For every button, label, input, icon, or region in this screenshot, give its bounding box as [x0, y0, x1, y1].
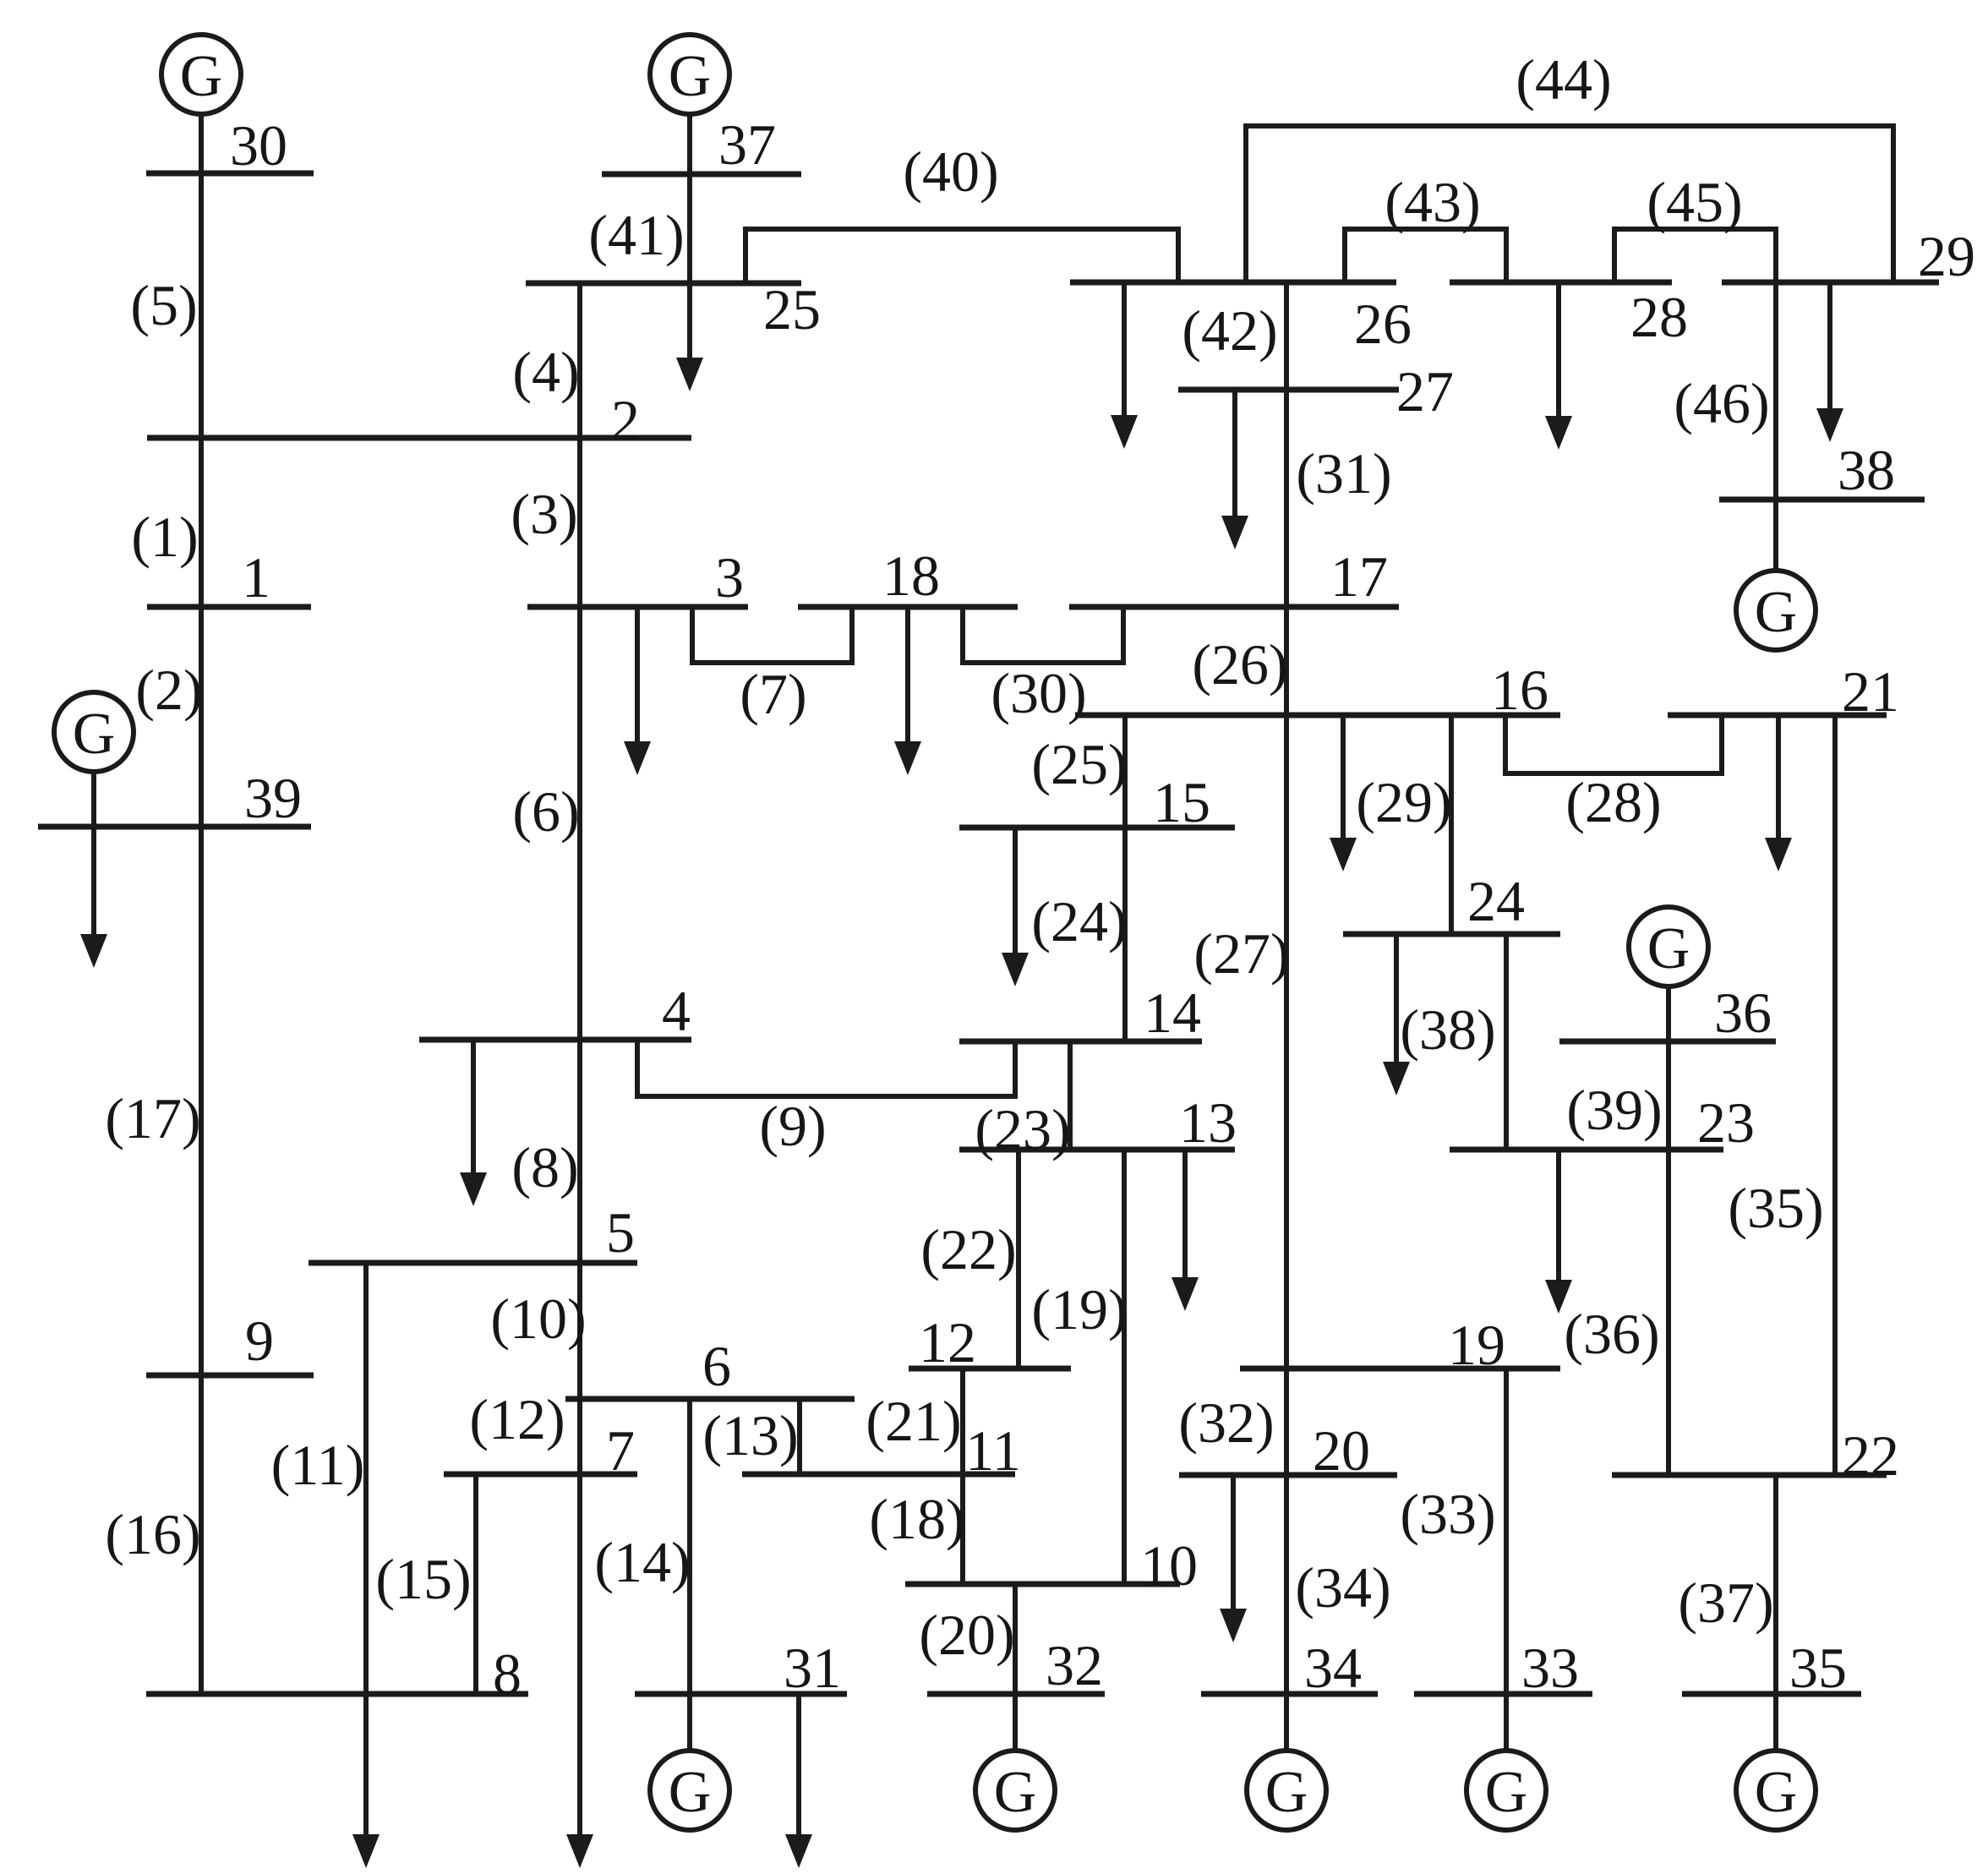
svg-text:G: G — [180, 44, 223, 109]
bus 21 bar — [1668, 713, 1887, 718]
svg-text:(28): (28) — [1565, 770, 1661, 834]
bus 26 bar — [1070, 280, 1396, 286]
svg-text:22: 22 — [1842, 1423, 1899, 1488]
bus 29 bar — [1722, 280, 1939, 286]
wire line (33) 19-33 — [1504, 1369, 1509, 1694]
wire line (13) 6-11 — [797, 1399, 802, 1474]
wire line (9) 4-14 — [637, 1040, 1015, 1096]
svg-text:34: 34 — [1304, 1636, 1362, 1700]
wire line (10) 5-6 — [577, 1263, 582, 1399]
svg-text:2: 2 — [611, 388, 640, 452]
wire line (6) 3-4 — [577, 607, 582, 1040]
wire line (26) 17-16 — [1284, 607, 1289, 715]
svg-text:(4): (4) — [512, 340, 579, 404]
bus 19 bar — [1240, 1366, 1560, 1372]
svg-text:(35): (35) — [1728, 1176, 1823, 1240]
svg-text:18: 18 — [882, 544, 940, 608]
bus 1 bar — [147, 604, 311, 610]
svg-text:29: 29 — [1918, 224, 1975, 288]
svg-text:(2): (2) — [135, 658, 202, 722]
bus 12 bar — [909, 1366, 1071, 1372]
svg-text:(3): (3) — [511, 482, 577, 546]
bus 33 bar — [1414, 1691, 1592, 1697]
generator G bus 35 — [1736, 1694, 1816, 1830]
load arrow bus 15 — [1002, 828, 1029, 986]
wire line (15) 7-8 — [473, 1474, 478, 1694]
wire line (17) 39-9 — [199, 827, 204, 1375]
wire line (21) 12-11 — [960, 1369, 965, 1474]
bus 10 bar — [905, 1582, 1180, 1587]
svg-text:(38): (38) — [1400, 997, 1495, 1062]
svg-text:(36): (36) — [1564, 1302, 1659, 1366]
generator G bus 34 — [1247, 1694, 1326, 1830]
svg-text:11: 11 — [965, 1418, 1020, 1483]
svg-text:(5): (5) — [130, 273, 197, 337]
load arrow bus 8 — [352, 1694, 380, 1868]
load arrow bus 24 — [1383, 934, 1410, 1095]
svg-text:(30): (30) — [991, 661, 1086, 725]
wire line (45) 28-29 — [1614, 229, 1776, 282]
svg-text:8: 8 — [493, 1642, 522, 1706]
svg-text:17: 17 — [1330, 544, 1388, 609]
svg-text:(13): (13) — [702, 1403, 798, 1467]
generator G bus 39 — [54, 692, 134, 827]
bus 8 bar — [146, 1691, 528, 1697]
bus 4 bar — [419, 1037, 691, 1043]
wire line (35) 21-22 — [1832, 715, 1838, 1475]
bus 37 bar — [602, 172, 801, 178]
wire line (19) 13-10 — [1122, 1150, 1127, 1584]
wire line (1) 2-1 — [199, 438, 204, 607]
bus 20 bar — [1179, 1472, 1397, 1478]
svg-text:(18): (18) — [869, 1487, 964, 1551]
wire line (5) 30-2 — [199, 173, 204, 438]
svg-text:4: 4 — [662, 979, 691, 1043]
wire line (24) 15-14 — [1122, 828, 1128, 1041]
bus 11 bar — [742, 1472, 1015, 1478]
generator G bus 32 — [975, 1694, 1055, 1830]
wire line (28) 16-21 — [1505, 715, 1722, 773]
svg-text:(12): (12) — [469, 1387, 565, 1451]
svg-text:14: 14 — [1144, 981, 1201, 1045]
wire line (36) 23-22 — [1666, 1150, 1671, 1475]
bus 25 bar — [526, 281, 801, 287]
wire line (16) 9-8 — [199, 1375, 204, 1694]
wire line (12) 6-7 — [577, 1399, 582, 1474]
bus 24 bar — [1343, 932, 1560, 937]
svg-text:(41): (41) — [588, 203, 684, 267]
wire line (27) 16-19 — [1284, 715, 1289, 1369]
bus 6 bar — [565, 1396, 855, 1402]
svg-text:G: G — [1647, 916, 1690, 981]
wire line (37) 22-35 — [1773, 1475, 1778, 1694]
wire line (23) 14-13 — [1068, 1041, 1073, 1150]
wire line (38) 24-23 — [1504, 934, 1509, 1150]
load arrow bus 28 — [1545, 282, 1572, 450]
wire line (41) 37-25 — [687, 174, 692, 283]
bus 39 bar — [38, 824, 311, 830]
svg-text:36: 36 — [1714, 981, 1772, 1045]
svg-text:G: G — [73, 702, 116, 767]
generator G bus 31 — [650, 1694, 729, 1830]
svg-text:(21): (21) — [866, 1389, 961, 1453]
generator G bus 36 — [1629, 907, 1708, 1041]
bus 7 bar — [444, 1472, 637, 1478]
load arrow bus 13 — [1171, 1150, 1199, 1311]
svg-text:25: 25 — [763, 277, 821, 341]
load arrow bus 23 — [1545, 1150, 1572, 1314]
svg-text:19: 19 — [1448, 1313, 1505, 1377]
bus 5 bar — [309, 1260, 637, 1266]
bus 15 bar — [959, 825, 1235, 831]
wire line (7) 3-18 — [692, 607, 852, 663]
bus 16 bar — [1075, 713, 1560, 718]
bus 3 bar — [527, 604, 748, 610]
svg-text:5: 5 — [606, 1200, 635, 1265]
svg-text:26: 26 — [1354, 292, 1412, 356]
wire line (14) 6-31 — [687, 1399, 692, 1694]
bus 28 bar — [1450, 280, 1672, 286]
load arrow bus 20 — [1220, 1475, 1247, 1642]
wire line (46) 29-38 — [1773, 282, 1778, 500]
svg-text:(42): (42) — [1182, 298, 1277, 363]
svg-text:(23): (23) — [975, 1097, 1070, 1161]
generator G bus 38 — [1736, 500, 1816, 650]
svg-text:G: G — [1485, 1760, 1528, 1825]
bus 9 bar — [146, 1373, 314, 1379]
wire line (18) 11-10 — [960, 1474, 965, 1584]
svg-text:21: 21 — [1842, 659, 1899, 724]
svg-text:3: 3 — [715, 545, 744, 609]
svg-text:(26): (26) — [1192, 632, 1287, 697]
svg-text:(20): (20) — [919, 1603, 1014, 1667]
svg-text:G: G — [1755, 580, 1798, 645]
svg-text:(8): (8) — [511, 1135, 578, 1199]
load arrow bus 31 — [785, 1694, 812, 1868]
svg-text:(10): (10) — [490, 1287, 586, 1351]
bus 2 bar — [147, 435, 691, 441]
svg-text:13: 13 — [1179, 1090, 1237, 1155]
wire line (20) 10-32 — [1013, 1584, 1018, 1694]
svg-text:(11): (11) — [271, 1433, 365, 1497]
svg-text:35: 35 — [1789, 1636, 1847, 1700]
wire line (30) 18-17 — [963, 607, 1123, 663]
load arrow bus 25 — [676, 283, 703, 391]
svg-text:37: 37 — [718, 112, 776, 177]
svg-text:27: 27 — [1396, 359, 1454, 423]
bus 23 bar — [1450, 1147, 1723, 1153]
bus 35 bar — [1682, 1691, 1861, 1697]
svg-text:6: 6 — [702, 1334, 731, 1398]
svg-text:(25): (25) — [1031, 732, 1127, 796]
svg-text:24: 24 — [1467, 869, 1525, 933]
svg-text:(15): (15) — [375, 1547, 471, 1611]
svg-text:(6): (6) — [512, 779, 579, 844]
load arrow bus 3 — [624, 607, 651, 775]
svg-text:(17): (17) — [105, 1086, 200, 1150]
bus 18 bar — [798, 604, 1018, 610]
load arrow bus 16 — [1330, 715, 1357, 871]
wire line (39) 36-23 — [1666, 1041, 1671, 1150]
svg-text:(9): (9) — [759, 1094, 826, 1158]
svg-text:7: 7 — [606, 1418, 635, 1483]
svg-text:12: 12 — [919, 1310, 976, 1374]
svg-text:(46): (46) — [1674, 371, 1769, 435]
generator G bus 37 — [650, 35, 729, 174]
bus 27 bar — [1178, 387, 1399, 393]
svg-text:(40): (40) — [903, 139, 998, 204]
svg-text:(7): (7) — [740, 662, 806, 726]
wire line (43) 26-28 — [1345, 229, 1506, 282]
svg-text:9: 9 — [245, 1309, 274, 1373]
svg-text:1: 1 — [242, 545, 270, 609]
svg-text:G: G — [669, 1760, 712, 1825]
bus 31 bar — [635, 1691, 847, 1697]
wire line (44) 26-29 — [1246, 126, 1893, 282]
svg-text:(37): (37) — [1678, 1571, 1773, 1635]
svg-text:G: G — [1265, 1760, 1308, 1825]
svg-text:23: 23 — [1697, 1090, 1755, 1155]
svg-text:(39): (39) — [1566, 1078, 1662, 1142]
svg-text:G: G — [1755, 1760, 1798, 1825]
svg-text:30: 30 — [230, 113, 287, 178]
wire line (4) 25-2 — [577, 283, 582, 438]
wire line (22) 13-12 — [1016, 1150, 1021, 1369]
load arrow bus 7 — [566, 1474, 593, 1868]
wire line (34) 20-34 — [1284, 1475, 1289, 1694]
svg-text:(32): (32) — [1178, 1390, 1274, 1455]
svg-text:(1): (1) — [131, 505, 198, 569]
svg-text:(14): (14) — [594, 1530, 690, 1594]
svg-text:(24): (24) — [1031, 889, 1127, 953]
bus 38 bar — [1719, 497, 1925, 503]
wire line (11) 5-8 — [363, 1263, 369, 1694]
wire line (32) 19-20 — [1284, 1369, 1289, 1475]
svg-text:28: 28 — [1630, 285, 1688, 349]
bus 13 bar — [959, 1147, 1235, 1153]
wire line (8) 4-5 — [577, 1040, 582, 1263]
load arrow bus 29 — [1816, 282, 1843, 442]
svg-text:10: 10 — [1140, 1533, 1198, 1598]
svg-text:G: G — [994, 1760, 1037, 1825]
bus 14 bar — [959, 1039, 1202, 1045]
load arrow bus 26 — [1111, 282, 1138, 449]
wire line (40) 25-26 — [745, 229, 1178, 283]
svg-text:(33): (33) — [1400, 1482, 1495, 1546]
load arrow bus 27 — [1221, 390, 1248, 549]
svg-text:16: 16 — [1491, 658, 1548, 722]
svg-text:39: 39 — [244, 766, 302, 830]
load arrow bus 18 — [894, 607, 921, 775]
bus 22 bar — [1612, 1472, 1887, 1478]
bus 34 bar — [1201, 1691, 1378, 1697]
wire line (31) 27-17 — [1284, 390, 1289, 607]
svg-text:(31): (31) — [1296, 441, 1391, 505]
svg-text:(29): (29) — [1356, 770, 1451, 834]
load arrow bus 39 — [80, 827, 107, 968]
svg-text:(34): (34) — [1295, 1555, 1390, 1620]
wire line (3) 2-3 — [577, 438, 582, 607]
bus 17 bar — [1069, 604, 1399, 610]
svg-text:33: 33 — [1521, 1636, 1579, 1700]
svg-text:(22): (22) — [920, 1217, 1016, 1281]
svg-text:(45): (45) — [1647, 170, 1742, 234]
load arrow bus 4 — [460, 1040, 487, 1206]
generator G bus 33 — [1466, 1694, 1546, 1830]
svg-text:(44): (44) — [1516, 47, 1611, 112]
svg-text:(27): (27) — [1193, 921, 1289, 986]
bus 36 bar — [1559, 1039, 1776, 1045]
svg-text:(19): (19) — [1031, 1277, 1127, 1341]
wire line (42) 26-27 — [1284, 282, 1289, 390]
bus 30 bar — [146, 171, 314, 177]
svg-text:31: 31 — [784, 1636, 841, 1700]
svg-text:(16): (16) — [105, 1502, 200, 1566]
svg-text:20: 20 — [1313, 1418, 1370, 1483]
bus 32 bar — [927, 1691, 1105, 1697]
svg-text:38: 38 — [1838, 438, 1895, 502]
wire line (29) 16-24 — [1449, 715, 1454, 934]
svg-text:15: 15 — [1153, 770, 1210, 834]
generator G bus 30 — [161, 35, 241, 173]
load arrow bus 21 — [1765, 715, 1792, 871]
svg-text:32: 32 — [1046, 1633, 1103, 1697]
svg-text:G: G — [669, 44, 712, 109]
wire line (25) 16-15 — [1122, 715, 1128, 828]
svg-text:(43): (43) — [1384, 170, 1480, 234]
wire line (2) 1-39 — [199, 607, 204, 827]
